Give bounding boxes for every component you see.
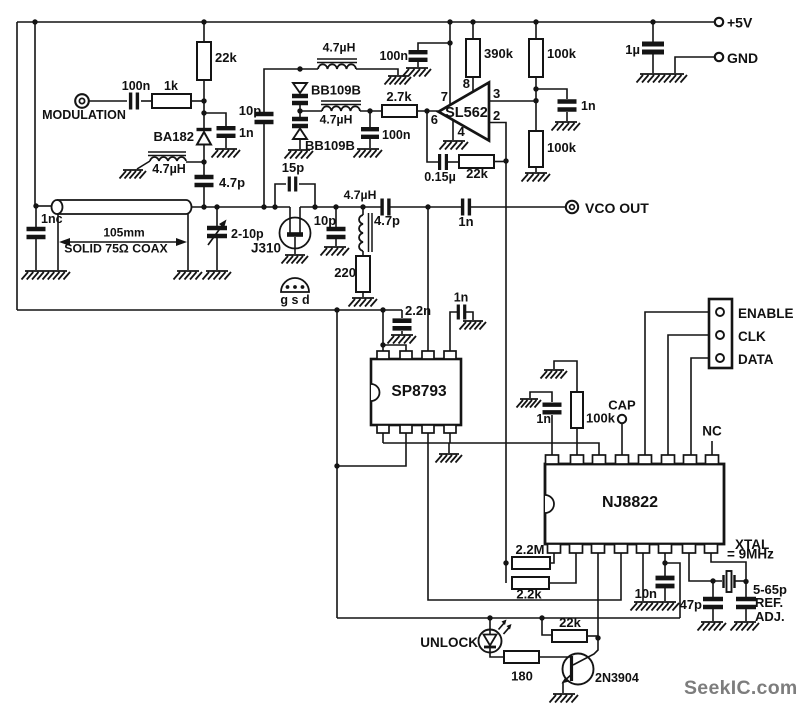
svg-text:100k: 100k [547, 46, 577, 61]
svg-text:2.2M: 2.2M [516, 542, 545, 557]
svg-text:100k: 100k [547, 140, 577, 155]
svg-text:0.15µ: 0.15µ [424, 170, 456, 184]
inductor 4.7uH vertical with core [360, 204, 365, 209]
ground 220 [349, 298, 378, 307]
wire to VCO OUT terminal [470, 206, 566, 208]
capacitor 10p at J310 out [333, 204, 338, 209]
capacitor 10n Vdd decouple [664, 553, 666, 563]
node pin6 junction [424, 108, 429, 113]
svg-text:7: 7 [441, 89, 448, 104]
node BA182 anode [201, 159, 206, 164]
svg-text:6: 6 [431, 112, 438, 127]
node 100n decouple junction [447, 40, 452, 45]
svg-text:1µ: 1µ [625, 42, 640, 57]
capacitor 1n bypass [217, 128, 236, 136]
wire +5V drop to coax node [34, 22, 36, 206]
ground 2.2n [388, 335, 417, 344]
ground top inductor [385, 76, 412, 85]
IC U2 SP8793 prescaler [371, 359, 461, 425]
capacitor 15p bridge [272, 204, 277, 209]
ground 2N3904 emitter [550, 694, 579, 703]
ground coax left + 1nc [22, 271, 71, 280]
wire VCO line 4.7p to 1n [389, 206, 463, 208]
svg-text:100n: 100n [122, 79, 151, 93]
pin 3 SL562 output [489, 100, 536, 102]
op-amp U1 SL562 [439, 83, 490, 141]
svg-text:NC: NC [702, 424, 722, 439]
resistor 100k upper [533, 19, 538, 24]
svg-text:4: 4 [458, 124, 466, 139]
wire 2.7k to SL562 pin6 [417, 110, 438, 112]
wire NC stub pin8 [711, 441, 713, 455]
svg-text:DATA: DATA [738, 352, 774, 367]
ground 1n SP8793 [460, 321, 487, 330]
LED arrows [499, 622, 511, 634]
capacitor 1nc [35, 206, 37, 227]
wire +5V top rail [17, 21, 715, 23]
capacitor 100n SL562 decouple [418, 43, 450, 50]
svg-text:100n: 100n [382, 128, 411, 142]
capacitor 0.15u feedback [440, 154, 447, 170]
svg-text:1n: 1n [581, 99, 596, 113]
node crystal left [710, 578, 715, 583]
ground 10p J310 [321, 247, 350, 256]
ground pin4 [440, 141, 469, 150]
svg-text:GND: GND [727, 50, 758, 66]
wire pin6 to +5V bottom wire [665, 563, 680, 618]
svg-text:220: 220 [334, 265, 356, 280]
wire 180 to base [539, 656, 571, 658]
terminal CAP [618, 415, 626, 423]
wire coax output [192, 206, 291, 208]
ground varactor chain [285, 150, 314, 159]
SP8793 bottom pin stubs [377, 425, 389, 433]
resistor 2.2M [512, 557, 550, 569]
wire SP8793 pin3 to NJ8822 pin4 (divider out) [428, 433, 621, 600]
svg-text:REF.: REF. [755, 595, 783, 610]
transistor J310 JFET [289, 207, 291, 233]
svg-text:4.7p: 4.7p [374, 213, 400, 228]
svg-text:SeekIC.com: SeekIC.com [684, 677, 798, 699]
ground RFC [120, 170, 147, 179]
capacitor 1n NJ8822 pin1 [551, 415, 553, 455]
coax resonator body 105mm solid 75ohm [57, 200, 192, 214]
svg-text:BB109B: BB109B [311, 83, 361, 98]
node trimmer junction [214, 204, 219, 209]
svg-text:1n: 1n [239, 126, 254, 140]
capacitor 47p [712, 581, 714, 597]
node junction x337 on +5V wire [334, 307, 339, 312]
svg-text:2.7k: 2.7k [386, 89, 412, 104]
ground 1n NJ8822 [517, 399, 542, 408]
svg-text:4.7µH: 4.7µH [323, 41, 356, 55]
ground 100n SL562 [403, 68, 432, 77]
svg-text:15p: 15p [282, 160, 304, 175]
connector pin CLK [716, 331, 724, 339]
svg-text:VCO OUT: VCO OUT [585, 200, 649, 216]
wire left frame vertical (+5V loop) [16, 22, 18, 310]
svg-text:+5V: +5V [727, 15, 753, 31]
svg-text:1k: 1k [164, 79, 178, 93]
ground NJ8822 pins 5/6 [631, 602, 680, 611]
ground coax right [174, 271, 203, 280]
node rail-left junction [32, 19, 37, 24]
node varactor midpoint [297, 108, 302, 113]
varactor BB109B lower [292, 119, 308, 126]
capacitor 5-65p REF ADJ trimmer [745, 582, 747, 597]
wire node to 1n bypass [204, 113, 226, 126]
terminal +5V [715, 18, 723, 26]
ground 100k NJ8822 [541, 370, 568, 379]
resistor 2.2k [505, 563, 507, 583]
resistor 100k NJ8822 pin2 [576, 428, 578, 455]
svg-text:105mm: 105mm [103, 226, 144, 240]
wire +5V to SP8793 pins 1-2 [383, 310, 406, 351]
svg-text:180: 180 [511, 669, 533, 684]
terminal VCO OUT [566, 201, 578, 213]
wire SL562 pin2 down to loop filter [505, 161, 507, 563]
capacitor 2-10p trimmer [216, 207, 218, 226]
terminal GND [715, 53, 723, 61]
wire coax left sheath to ground [57, 214, 59, 270]
resistor 2.7k [382, 105, 417, 117]
svg-text:3: 3 [493, 86, 500, 101]
node crystal right [743, 579, 748, 584]
svg-text:2.2n: 2.2n [405, 303, 431, 318]
varactor BB109B upper [293, 83, 307, 93]
resistor 220 [362, 251, 364, 256]
svg-text:ENABLE: ENABLE [738, 306, 794, 321]
svg-text:g s d: g s d [280, 293, 309, 307]
ground J310 gate [282, 255, 309, 264]
capacitor 10p tank [263, 124, 265, 207]
connector pin ENABLE [716, 308, 724, 316]
ground 1n bypass [212, 149, 241, 158]
wire +5V bottom distribution y=310 [17, 309, 402, 311]
inductor 4.7uH RFC to ground [186, 161, 204, 163]
pin 7 SL562 [447, 19, 452, 24]
wire tap down to SP8793 [427, 207, 429, 352]
svg-text:1n: 1n [458, 214, 473, 229]
pin 4 SL562 to ground [452, 119, 454, 140]
wire SP8793 pin2 to +5V vertical [337, 433, 406, 466]
svg-text:10p: 10p [314, 213, 336, 228]
svg-text:SL562: SL562 [445, 105, 488, 121]
pin 8 SL562 / resistor 390k [470, 19, 475, 24]
svg-text:2-10p: 2-10p [231, 227, 264, 241]
svg-text:ADJ.: ADJ. [755, 609, 785, 624]
wire 100n to 1k [141, 100, 152, 102]
ground 47p [698, 622, 727, 631]
svg-text:47p: 47p [680, 597, 702, 612]
capacitor 4.7p coupling to resonator [203, 162, 205, 175]
svg-text:8: 8 [463, 76, 470, 91]
wire GND terminal to ground [675, 57, 715, 73]
node 4.7p junction [201, 204, 206, 209]
svg-text:MODULATION: MODULATION [42, 108, 126, 122]
ground power entry [637, 74, 688, 83]
wire SP8793 bottom bus [382, 433, 384, 443]
node 10p top junction [261, 204, 266, 209]
node varactor chain top [297, 66, 302, 71]
node 22k junction [539, 615, 544, 620]
pin 2 SL562 output [489, 123, 506, 162]
capacitor 1n at SL562 out [536, 89, 567, 99]
node feedback/pin2 junction [503, 158, 508, 163]
capacitor 2.2n supply bypass [401, 310, 403, 318]
svg-text:390k: 390k [484, 46, 514, 61]
svg-text:22k: 22k [559, 615, 581, 630]
dimension arrow 105mm [64, 241, 182, 243]
wire NJ8822 pin8 to trimmer [711, 553, 746, 582]
node VCO to prescaler tap [425, 204, 430, 209]
svg-text:J310: J310 [251, 241, 281, 256]
node 2.7k input junction [367, 108, 372, 113]
wire coax right sheath to ground [187, 214, 189, 270]
svg-text:UNLOCK: UNLOCK [420, 635, 478, 650]
connector pin DATA [716, 354, 724, 362]
resistor 22k lock detect [542, 618, 552, 635]
node varactor bias junction [201, 98, 206, 103]
svg-text:1n: 1n [454, 291, 469, 305]
NJ8822 top pin stubs [546, 455, 559, 464]
svg-text:1n: 1n [536, 412, 551, 426]
wire VCO line J310 to 4.7p [300, 206, 382, 208]
wire feedback from pin6 node [427, 111, 439, 162]
node +5V vertical junction [334, 463, 339, 468]
svg-text:100k: 100k [586, 411, 616, 426]
wire NJ8822 pin7 to crystal [689, 553, 722, 581]
ground 100n at 2.7k [354, 149, 383, 158]
resistor 180 [504, 651, 539, 663]
node pin3 junction [533, 98, 538, 103]
diode BA182 [203, 113, 205, 129]
wire +5V long vertical to bottom [336, 310, 338, 618]
wire 1k to node [191, 100, 204, 102]
crystal XTAL 9MHz [724, 575, 735, 588]
LED UNLOCK [489, 618, 491, 631]
wire 1nc node to coax [36, 205, 52, 207]
node junction x383 on +5V wire [380, 307, 385, 312]
svg-text:10n: 10n [635, 586, 657, 601]
wire NJ8822 pin5 to ground [642, 553, 644, 601]
node coax left / 1nc [33, 203, 38, 208]
capacitor 1n series VCO out [463, 199, 470, 216]
svg-text:NJ8822: NJ8822 [602, 494, 658, 511]
wire CLK to pin6 [668, 335, 709, 455]
svg-text:10p: 10p [239, 103, 261, 118]
svg-text:CLK: CLK [738, 329, 766, 344]
node loop filter junction [503, 560, 508, 565]
wire ENABLE to pin5 [645, 312, 709, 455]
capacitor 100n at 2.7k [369, 111, 371, 127]
resistor 1k [152, 94, 191, 108]
ground trimmer [731, 622, 760, 631]
inductor 4.7uH top [300, 68, 318, 70]
svg-text:= 9MHz: = 9MHz [727, 547, 774, 562]
inductor 4.7uH mid [300, 110, 322, 112]
svg-text:4.7µH: 4.7µH [152, 162, 186, 176]
wire 0.15u to 22k [448, 161, 460, 163]
svg-text:22k: 22k [215, 50, 237, 65]
node collector junction [595, 635, 600, 640]
node 1n branch [533, 86, 538, 91]
wire NJ8822 pin3 lock detect down [597, 553, 599, 638]
terminal MODULATION input [75, 94, 89, 108]
ground trimmer [203, 271, 232, 280]
IC U3 NJ8822 synthesiser [545, 464, 724, 544]
resistor 100k lower [529, 131, 543, 167]
svg-text:SOLID 75Ω COAX: SOLID 75Ω COAX [64, 242, 168, 256]
svg-text:2N3904: 2N3904 [595, 671, 639, 685]
svg-text:CAP: CAP [608, 398, 636, 413]
svg-text:2: 2 [493, 108, 500, 123]
wire modulation to 100n [89, 100, 127, 102]
capacitor 4.7p series VCO [382, 199, 389, 216]
connector serial interface box [709, 299, 732, 368]
capacitor 1n SP8793 pin4 [450, 312, 457, 351]
ground SP8793 bus [448, 443, 450, 453]
capacitor C 1u [650, 19, 655, 24]
svg-text:2.2k: 2.2k [516, 587, 542, 602]
capacitor 100n modulation coupling [131, 93, 138, 110]
svg-text:22k: 22k [466, 166, 488, 181]
svg-text:4.7µH: 4.7µH [320, 113, 353, 127]
transistor Q1 2N3904 [563, 654, 594, 685]
svg-text:100n: 100n [380, 49, 409, 63]
resistor 22k top-left [201, 19, 206, 24]
SP8793 top pin stubs [377, 351, 389, 359]
svg-text:4.7µH: 4.7µH [344, 188, 377, 202]
J310 pinout symbol g s d [281, 278, 309, 292]
resistor 22k feedback [459, 155, 494, 168]
NJ8822 bottom pin stubs [548, 544, 561, 553]
wire DATA to pin7 [691, 358, 709, 455]
svg-text:4.7p: 4.7p [219, 175, 245, 190]
ground 1n SL562 out [552, 122, 581, 131]
svg-text:SP8793: SP8793 [391, 383, 447, 400]
wire +5V bottom run [337, 617, 680, 619]
node LED junction [487, 615, 492, 620]
ground 100k lower [522, 173, 551, 182]
svg-text:BA182: BA182 [154, 129, 194, 144]
